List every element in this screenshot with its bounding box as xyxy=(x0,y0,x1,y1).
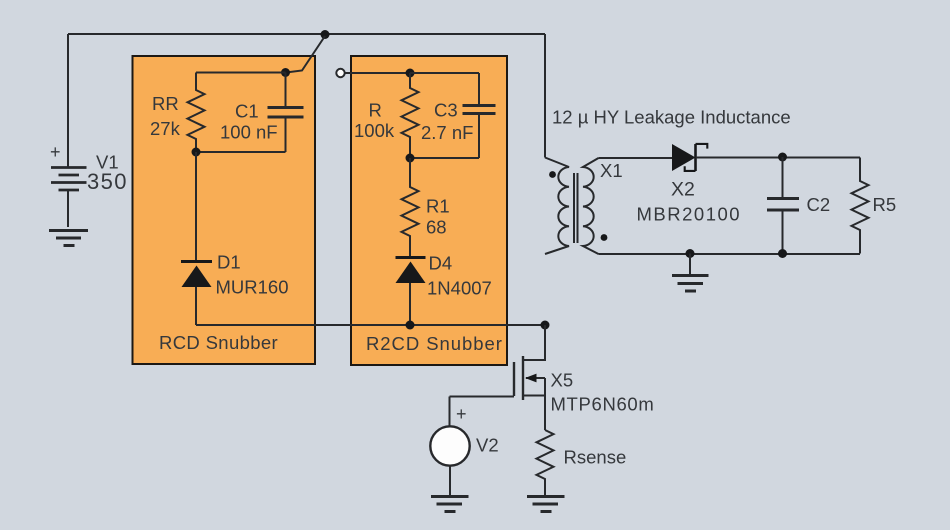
R2CD snubber box xyxy=(351,56,507,365)
svg-text:C2: C2 xyxy=(807,194,831,215)
wire box2 mid node xyxy=(410,157,479,159)
svg-text:12 µ HY Leakage Inductance: 12 µ HY Leakage Inductance xyxy=(552,107,791,128)
node drain junction xyxy=(541,321,550,330)
svg-text:RCD Snubber: RCD Snubber xyxy=(159,332,278,353)
wire secondary top lead xyxy=(599,157,673,159)
svg-text:C3: C3 xyxy=(434,100,458,121)
svg-text:X5: X5 xyxy=(551,370,574,391)
transformer primary phase dot xyxy=(549,171,556,178)
wire drain lead xyxy=(523,325,545,360)
svg-text:MTP6N60m: MTP6N60m xyxy=(551,394,655,415)
resistor Rsense xyxy=(537,430,554,496)
node D4 bottom junction xyxy=(406,321,415,330)
svg-text:100 nF: 100 nF xyxy=(220,122,278,143)
capacitor C1 xyxy=(268,73,304,153)
diode D1 xyxy=(181,262,212,288)
svg-text:R5: R5 xyxy=(873,194,897,215)
svg-text:V2: V2 xyxy=(476,435,499,456)
resistor R5 xyxy=(852,158,869,254)
svg-text:68: 68 xyxy=(426,217,447,238)
battery V1 xyxy=(51,168,87,191)
wire D4 to bottom rail xyxy=(409,283,411,325)
svg-text:X1: X1 xyxy=(600,160,623,181)
diode X2 xyxy=(672,144,707,171)
wire secondary bottom rail xyxy=(599,253,861,255)
switch open terminal xyxy=(336,69,344,77)
resistor RR xyxy=(188,73,205,153)
ground V2 xyxy=(431,497,469,512)
node C1 top junction xyxy=(281,68,290,77)
svg-text:MBR20100: MBR20100 xyxy=(637,204,742,225)
svg-text:MUR160: MUR160 xyxy=(216,277,289,298)
node secondary ground junction xyxy=(686,249,695,258)
svg-text:+: + xyxy=(456,404,467,424)
svg-text:R2CD Snubber: R2CD Snubber xyxy=(366,333,503,354)
wire gate lead xyxy=(450,396,515,398)
resistor R xyxy=(402,73,419,158)
svg-text:X2: X2 xyxy=(671,179,695,201)
svg-text:D1: D1 xyxy=(217,252,241,273)
source V2 xyxy=(430,426,469,465)
ground V1 xyxy=(49,231,88,246)
wire box2 top node xyxy=(410,72,479,74)
transistor X5 xyxy=(514,356,545,430)
svg-text:RR: RR xyxy=(152,93,179,114)
ground Rsense xyxy=(527,497,565,512)
wire box1 top node xyxy=(196,72,286,74)
transformer secondary phase dot xyxy=(601,234,608,241)
node R bottom junction xyxy=(406,154,415,163)
ground secondary xyxy=(672,254,709,292)
RCD snubber box xyxy=(133,56,316,364)
switch pivot node xyxy=(321,30,330,39)
switch blade xyxy=(286,36,325,73)
node output top junction xyxy=(778,153,787,162)
wire V2 bottom lead xyxy=(449,466,451,496)
node RR bottom junction xyxy=(192,148,201,157)
svg-text:1N4007: 1N4007 xyxy=(427,278,492,299)
wire box1 bottom node xyxy=(196,151,286,153)
svg-text:R1: R1 xyxy=(426,196,450,217)
wire X2 cathode to output node xyxy=(696,157,861,159)
wire switch terminal to R xyxy=(345,72,410,74)
svg-text:C1: C1 xyxy=(235,101,259,122)
wire snubber bottom rail xyxy=(196,324,545,326)
wire battery top lead xyxy=(67,34,69,167)
wire battery bottom lead xyxy=(67,190,69,227)
node R top junction xyxy=(406,69,415,78)
svg-text:100k: 100k xyxy=(354,120,395,141)
svg-text:Rsense: Rsense xyxy=(564,447,627,468)
wire top rail xyxy=(68,33,545,35)
capacitor C3 xyxy=(463,73,496,158)
node output bottom junction xyxy=(778,249,787,258)
svg-text:D4: D4 xyxy=(429,253,453,274)
capacitor C2 xyxy=(767,157,799,254)
transformer X1 xyxy=(545,158,599,255)
wire primary top lead xyxy=(544,34,546,158)
svg-text:R: R xyxy=(369,100,382,121)
diode D4 xyxy=(396,258,426,284)
wire V2 top lead xyxy=(449,397,451,427)
svg-text:2.7 nF: 2.7 nF xyxy=(421,122,473,143)
svg-text:350: 350 xyxy=(87,169,128,194)
svg-text:+: + xyxy=(50,142,61,162)
resistor R1 xyxy=(402,158,419,258)
wire D1 to bottom rail xyxy=(195,287,197,325)
wire RR to D1 xyxy=(195,152,197,262)
svg-text:27k: 27k xyxy=(150,118,181,139)
